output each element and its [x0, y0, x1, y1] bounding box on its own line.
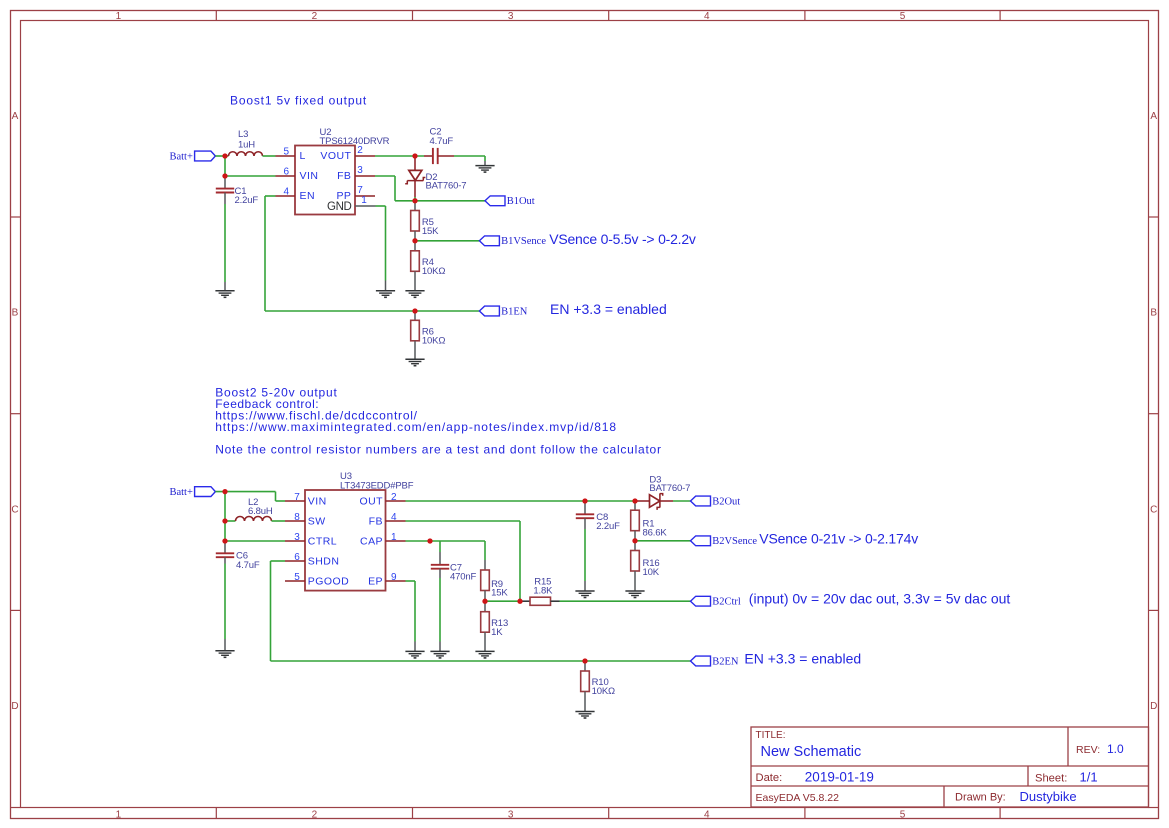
svg-text:4: 4 — [391, 512, 397, 523]
svg-text:7: 7 — [294, 492, 300, 503]
svg-text:VIN: VIN — [300, 170, 319, 182]
svg-text:4: 4 — [283, 186, 289, 197]
svg-text:Dustybike: Dustybike — [1020, 789, 1077, 804]
svg-text:SW: SW — [308, 516, 326, 528]
svg-text:1: 1 — [116, 809, 122, 820]
svg-text:4.7uF: 4.7uF — [430, 136, 454, 147]
svg-text:2019-01-19: 2019-01-19 — [805, 770, 874, 785]
svg-text:B2VSence: B2VSence — [712, 536, 757, 547]
svg-text:VIN: VIN — [308, 496, 327, 508]
svg-text:REV:: REV: — [1076, 744, 1100, 756]
svg-text:Batt+: Batt+ — [169, 487, 192, 498]
svg-text:New Schematic: New Schematic — [761, 744, 862, 760]
svg-text:TPS61240DRVR: TPS61240DRVR — [320, 136, 390, 147]
svg-text:2: 2 — [357, 145, 363, 156]
svg-text:Drawn By:: Drawn By: — [955, 792, 1006, 804]
svg-text:2.2uF: 2.2uF — [596, 521, 620, 532]
svg-text:1uH: 1uH — [238, 139, 255, 150]
svg-text:10KΩ: 10KΩ — [422, 335, 445, 346]
svg-text:2: 2 — [312, 11, 318, 22]
svg-text:3: 3 — [357, 165, 363, 176]
svg-text:OUT: OUT — [359, 496, 383, 508]
svg-text:2.2uF: 2.2uF — [235, 195, 259, 206]
svg-text:3: 3 — [294, 532, 300, 543]
svg-text:CTRL: CTRL — [308, 536, 337, 548]
svg-text:A: A — [1150, 111, 1157, 122]
svg-text:1.8K: 1.8K — [533, 585, 553, 596]
svg-text:9: 9 — [391, 572, 397, 583]
svg-text:PGOOD: PGOOD — [308, 576, 349, 588]
svg-text:B1VSence: B1VSence — [501, 236, 546, 247]
svg-text:SHDN: SHDN — [308, 556, 340, 568]
svg-text:6.8uH: 6.8uH — [248, 506, 273, 517]
svg-text:8: 8 — [294, 512, 300, 523]
svg-text:VOUT: VOUT — [320, 150, 351, 162]
svg-text:15K: 15K — [422, 226, 439, 237]
svg-text:2: 2 — [312, 809, 318, 820]
svg-text:VSence 0-21v -> 0-2.174v: VSence 0-21v -> 0-2.174v — [759, 531, 918, 547]
svg-text:B2Ctrl: B2Ctrl — [712, 597, 741, 608]
svg-text:5: 5 — [900, 809, 906, 820]
svg-text:BAT760-7: BAT760-7 — [649, 483, 690, 494]
svg-text:L: L — [300, 150, 306, 162]
svg-text:4.7uF: 4.7uF — [236, 560, 260, 571]
svg-text:15K: 15K — [491, 588, 508, 599]
svg-text:D: D — [1150, 701, 1157, 712]
svg-text:C: C — [1150, 504, 1157, 515]
svg-text:5: 5 — [283, 146, 289, 157]
svg-text:EasyEDA V5.8.22: EasyEDA V5.8.22 — [756, 792, 840, 804]
svg-text:B: B — [1150, 308, 1157, 319]
svg-text:5: 5 — [294, 572, 300, 583]
svg-text:(input) 0v = 20v dac out, 3.3v: (input) 0v = 20v dac out, 3.3v = 5v dac … — [749, 591, 1011, 607]
svg-text:1: 1 — [391, 532, 397, 543]
svg-text:Batt+: Batt+ — [169, 151, 192, 162]
svg-text:470nF: 470nF — [450, 572, 477, 583]
svg-text:B1Out: B1Out — [507, 196, 535, 207]
svg-text:GND: GND — [327, 201, 351, 213]
svg-text:LT3473EDD#PBF: LT3473EDD#PBF — [340, 481, 414, 492]
svg-text:B: B — [12, 308, 19, 319]
svg-text:1: 1 — [361, 195, 367, 206]
svg-text:VSence 0-5.5v -> 0-2.2v: VSence 0-5.5v -> 0-2.2v — [549, 231, 696, 247]
svg-text:3: 3 — [508, 809, 514, 820]
svg-text:CAP: CAP — [360, 536, 383, 548]
svg-text:Date:: Date: — [756, 772, 783, 784]
svg-text:B2Out: B2Out — [712, 496, 740, 507]
svg-text:5: 5 — [900, 11, 906, 22]
svg-text:3: 3 — [508, 11, 514, 22]
svg-text:6: 6 — [294, 552, 300, 563]
svg-text:6: 6 — [283, 166, 289, 177]
svg-text:Boost1 5v fixed output: Boost1 5v fixed output — [230, 94, 367, 108]
svg-text:Sheet:: Sheet: — [1035, 772, 1067, 784]
svg-text:2: 2 — [391, 492, 397, 503]
svg-text:EN: EN — [300, 190, 316, 202]
svg-text:FB: FB — [369, 516, 383, 528]
svg-text:A: A — [12, 111, 19, 122]
svg-text:1: 1 — [116, 11, 122, 22]
svg-text:86.6K: 86.6K — [643, 527, 668, 538]
svg-text:TITLE:: TITLE: — [756, 730, 786, 741]
svg-text:B2EN: B2EN — [712, 656, 739, 667]
svg-text:EN +3.3 = enabled: EN +3.3 = enabled — [744, 650, 861, 666]
svg-text:FB: FB — [337, 170, 351, 182]
svg-text:EN +3.3 = enabled: EN +3.3 = enabled — [550, 301, 667, 317]
svg-text:1/1: 1/1 — [1080, 770, 1098, 785]
svg-text:EP: EP — [368, 576, 383, 588]
svg-text:Note the control resistor numb: Note the control resistor numbers are a … — [215, 443, 662, 457]
svg-text:4: 4 — [704, 11, 710, 22]
svg-text:1.0: 1.0 — [1107, 742, 1124, 756]
svg-text:https://www.maximintegrated.co: https://www.maximintegrated.com/en/app-n… — [215, 420, 617, 434]
svg-text:10KΩ: 10KΩ — [422, 266, 445, 277]
svg-text:C: C — [11, 504, 18, 515]
svg-text:10KΩ: 10KΩ — [592, 686, 615, 697]
svg-text:BAT760-7: BAT760-7 — [426, 181, 467, 192]
svg-text:D: D — [11, 701, 18, 712]
svg-text:4: 4 — [704, 809, 710, 820]
svg-text:10K: 10K — [643, 567, 660, 578]
svg-text:B1EN: B1EN — [501, 306, 528, 317]
svg-text:1K: 1K — [491, 627, 503, 638]
